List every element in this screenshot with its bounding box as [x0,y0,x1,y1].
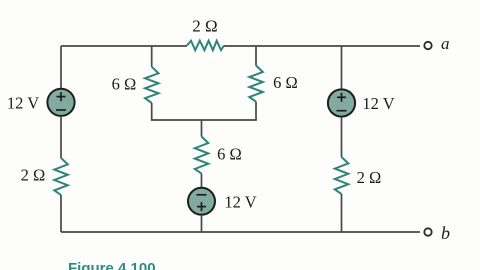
wire 6ohm-left top lead [151,46,153,67]
resistor 6 ohm right [249,66,262,102]
wire 6ohm-right top lead [255,46,257,66]
svg-text:2 Ω: 2 Ω [192,17,217,36]
resistor 6 ohm left [145,67,159,103]
wire right branch upper [341,46,343,90]
wire 6ohm-right bottom lead [255,102,257,120]
svg-text:2 Ω: 2 Ω [357,168,382,187]
resistor 2 ohm left [54,158,68,195]
resistor 2 ohm top [187,41,224,51]
svg-text:6 Ω: 6 Ω [112,75,137,94]
wire center branch lower lead [201,215,203,232]
svg-text:a: a [441,34,450,53]
svg-text:6 Ω: 6 Ω [217,145,242,164]
wire left branch lower [60,195,62,232]
wire left branch middle [60,116,62,158]
svg-text:2 Ω: 2 Ω [21,166,46,185]
wire right branch lower [341,194,343,232]
resistor 2 ohm right [335,157,349,194]
svg-text:12 V: 12 V [224,193,256,212]
svg-text:Figure 4.100: Figure 4.100 [68,260,156,270]
voltage source 12V center [188,188,215,215]
voltage source 12V left [47,89,74,116]
wire middle horizontal [151,119,257,121]
wire right branch middle [341,117,343,157]
resistor 6 ohm center [195,137,209,174]
svg-text:b: b [441,223,450,243]
wire top-right horizontal [224,45,420,47]
wire center branch mid lead [201,174,203,188]
svg-text:6 Ω: 6 Ω [273,73,298,92]
voltage source 12V right [328,89,355,116]
wire 6ohm-left bottom lead [151,103,153,120]
svg-text:12 V: 12 V [362,94,394,113]
terminal b [424,228,431,235]
wire center branch upper lead [201,120,203,137]
wire bottom horizontal [61,231,420,233]
terminal a [424,42,431,49]
wire top-left horizontal [61,45,187,47]
wire left branch upper [60,46,62,89]
svg-text:12 V: 12 V [7,94,39,113]
